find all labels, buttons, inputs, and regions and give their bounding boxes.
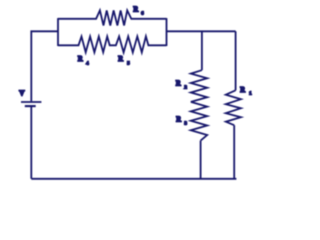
wire: middle branch lower segment — [200, 141, 202, 179]
resistor R1 — [226, 90, 241, 125]
svg-text:3: 3 — [185, 120, 188, 125]
wire: output wire from box to right branch — [167, 30, 236, 32]
resistor R3 (lower half of middle zigzag) — [191, 102, 207, 141]
wire: right branch lower segment — [233, 125, 235, 179]
battery V: short thick bottom plate — [25, 105, 36, 107]
svg-text:R: R — [176, 116, 181, 124]
svg-text:4: 4 — [86, 61, 89, 66]
svg-text:V: V — [19, 89, 25, 97]
resistor R6 on box top branch — [58, 10, 167, 25]
resistor R4 and resistor R5 on box bottom branch — [58, 36, 167, 52]
wire: bottom return wire — [31, 178, 236, 180]
svg-text:R: R — [78, 55, 83, 63]
battery V: long top plate — [21, 101, 41, 103]
wire: box left edge — [57, 18, 59, 46]
svg-text:R: R — [118, 55, 123, 63]
svg-text:R: R — [176, 80, 181, 88]
svg-text:6: 6 — [141, 10, 144, 15]
svg-text:2: 2 — [185, 84, 188, 89]
svg-text:5: 5 — [127, 61, 130, 66]
svg-text:R: R — [240, 86, 245, 94]
resistor R2 (upper half of middle zigzag) — [191, 70, 207, 102]
wire: middle branch upper segment — [201, 31, 203, 70]
svg-text:1: 1 — [249, 91, 252, 96]
wire: battery negative down left side — [30, 106, 32, 179]
svg-text:R: R — [133, 6, 138, 14]
wire: right branch upper segment — [235, 31, 237, 90]
wire: box right edge — [166, 18, 168, 46]
wire: left feed from box to battery positive — [31, 31, 58, 101]
